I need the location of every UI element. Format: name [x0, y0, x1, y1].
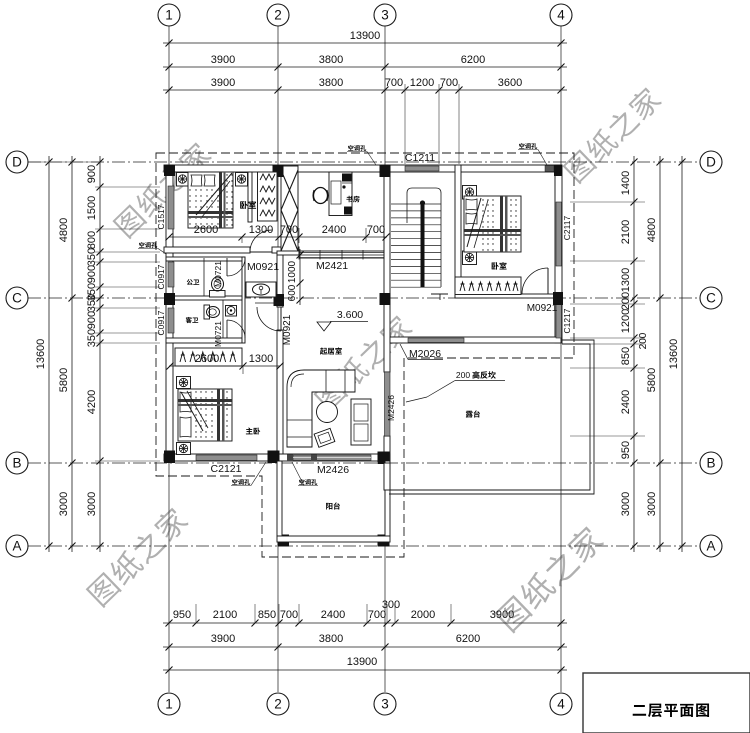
basin bath2	[226, 306, 237, 317]
svg-text:13600: 13600	[668, 339, 680, 370]
balcony east parapet	[385, 461, 390, 536]
svg-text:1300: 1300	[620, 268, 632, 292]
partition in bath 2	[222, 300, 224, 338]
window C1217	[556, 304, 562, 338]
axis bubble C left	[6, 287, 28, 309]
svg-text:350: 350	[86, 248, 98, 266]
svg-text:700: 700	[367, 224, 385, 236]
door M2426 east sill	[385, 372, 391, 436]
svg-text:1200: 1200	[410, 77, 434, 89]
svg-text:M0721: M0721	[213, 321, 223, 347]
exterior wall south of master bedroom / living room (axis B)	[164, 454, 390, 461]
svg-text:600: 600	[287, 284, 298, 301]
column balcony SW	[278, 535, 290, 547]
top extension lines	[404, 84, 406, 164]
bathroom block bottom wall	[166, 338, 242, 343]
stair direction mark	[431, 293, 448, 295]
study desk	[329, 172, 352, 216]
wall bedroom1 south	[164, 247, 250, 253]
left dimension line 13600	[48, 156, 50, 552]
svg-text:3: 3	[381, 697, 389, 712]
title block box	[583, 673, 750, 733]
axis bubble A left	[6, 535, 28, 557]
bottom dimension line subdivisions	[163, 622, 567, 624]
svg-text:M0721: M0721	[213, 261, 223, 287]
svg-text:3600: 3600	[498, 77, 522, 89]
svg-text:6200: 6200	[456, 633, 480, 645]
left dimension line subdivisions	[99, 156, 101, 552]
svg-text:C: C	[12, 291, 22, 306]
window C2121	[196, 455, 257, 461]
master closet	[175, 348, 242, 366]
interior dim line 2600/1300/700/2400/700	[169, 236, 387, 238]
master bed dark bands	[217, 389, 220, 441]
bed 2 nightstand bottom with lamp	[463, 251, 477, 265]
axis bubble A right	[700, 535, 722, 557]
svg-text:850: 850	[620, 347, 632, 365]
partition in bath 1	[203, 258, 205, 296]
svg-text:M2426: M2426	[317, 464, 349, 476]
svg-text:C: C	[706, 291, 716, 306]
bathroom east wall	[242, 257, 245, 343]
svg-text:1: 1	[165, 8, 173, 23]
window C1517	[168, 186, 174, 229]
room label master	[246, 428, 260, 435]
toilet bath2	[204, 305, 210, 319]
window C0917 lower	[168, 308, 174, 333]
window C1211	[405, 166, 439, 171]
svg-text:3900: 3900	[211, 77, 235, 89]
living west wall (axis 2)	[277, 298, 283, 307]
svg-text:200: 200	[620, 292, 632, 310]
roof overhang dashed outline	[156, 153, 574, 557]
svg-text:3000: 3000	[58, 492, 70, 516]
room label study	[346, 196, 359, 203]
staircase center rail	[421, 202, 425, 288]
svg-text:C1211: C1211	[405, 152, 435, 164]
svg-text:2600: 2600	[195, 353, 219, 365]
staircase treads	[391, 203, 441, 205]
master nightstand bottom	[177, 443, 191, 455]
svg-text:2100: 2100	[620, 220, 632, 244]
svg-text:B: B	[706, 456, 715, 471]
column 3/C	[380, 293, 391, 305]
column balcony SE	[378, 535, 390, 547]
axis bubble 2 top	[267, 4, 289, 26]
door M0721 bath2	[226, 320, 228, 338]
toilet bath1	[210, 291, 226, 298]
svg-text:1: 1	[165, 697, 173, 712]
svg-text:5800: 5800	[646, 368, 658, 392]
level mark 3.600	[317, 322, 331, 331]
exterior wall right upper (axis 4)	[555, 165, 562, 343]
svg-text:4: 4	[557, 8, 565, 23]
grid line 4 vertical	[560, 26, 562, 692]
svg-text:3900: 3900	[490, 609, 514, 621]
svg-text:4: 4	[557, 697, 565, 712]
shaft lattice	[281, 170, 298, 210]
door M0721 bath1	[226, 258, 228, 276]
corridor vanity	[246, 282, 276, 297]
svg-text:850: 850	[258, 609, 276, 621]
living east wall lower	[384, 463, 390, 490]
svg-text:M2426: M2426	[386, 395, 396, 421]
watermark 1	[112, 139, 213, 239]
svg-text:6200: 6200	[461, 54, 485, 66]
svg-text:13600: 13600	[35, 339, 47, 370]
axis bubble B right	[700, 452, 722, 474]
wall bedroom2 south (axis C east)	[455, 294, 561, 298]
svg-text:2400: 2400	[620, 390, 632, 414]
svg-text:4200: 4200	[86, 390, 98, 414]
svg-text:A: A	[706, 539, 715, 554]
bottom dimension line 3900/3800/6200	[163, 646, 567, 648]
corridor east wall (axis 2)	[277, 253, 283, 298]
axis bubble 4 bottom	[550, 693, 572, 715]
svg-text:C2121: C2121	[211, 463, 242, 475]
grid line D horizontal	[28, 161, 700, 163]
svg-text:13900: 13900	[350, 30, 381, 42]
bed 2 nightstand top with lamp	[463, 186, 477, 200]
bedroom1 wardrobe	[258, 172, 278, 221]
watermark 4	[86, 505, 191, 608]
balcony west parapet	[277, 461, 282, 536]
left dimension line 4800/5800/3000	[71, 156, 73, 552]
stool rotated	[314, 428, 335, 447]
svg-text:1300: 1300	[249, 353, 273, 365]
axis bubble D right	[700, 151, 722, 173]
svg-text:2600: 2600	[194, 224, 218, 236]
svg-text:700: 700	[280, 224, 298, 236]
axis bubble D left	[6, 151, 28, 173]
master bed	[178, 389, 232, 441]
bed 1 nightstand right with lamp	[236, 173, 248, 187]
bed 1 dark bands	[188, 211, 233, 214]
svg-text:M0921: M0921	[247, 261, 279, 273]
left D extension	[28, 161, 100, 163]
room label bedroom1	[240, 201, 256, 209]
svg-text:B: B	[12, 456, 21, 471]
column 4/C	[553, 292, 563, 305]
AC hole mark top-right wall	[545, 166, 554, 172]
AC hole label top right	[519, 143, 537, 149]
svg-text:950: 950	[620, 441, 632, 459]
grid line C horizontal	[28, 297, 700, 299]
svg-text:2000: 2000	[411, 609, 435, 621]
svg-text:3900: 3900	[211, 54, 235, 66]
svg-text:3900: 3900	[211, 633, 235, 645]
svg-text:3000: 3000	[86, 492, 98, 516]
svg-text:1300: 1300	[249, 224, 273, 236]
svg-text:1000: 1000	[287, 260, 298, 283]
terrace parapet	[389, 340, 594, 494]
svg-text:C0917: C0917	[156, 310, 166, 335]
svg-text:700: 700	[280, 609, 298, 621]
TV cabinet	[351, 399, 371, 445]
column 1/B	[164, 451, 175, 464]
sofa L-shaped	[287, 370, 355, 447]
room label bath1	[187, 279, 199, 285]
AC hole label left wall	[139, 242, 157, 248]
svg-text:C1517: C1517	[156, 204, 166, 229]
svg-text:1200: 1200	[620, 309, 632, 333]
bed 2 dark bands	[500, 196, 503, 252]
column 2/B	[268, 451, 280, 464]
svg-text:900: 900	[86, 165, 98, 183]
axis bubble 3 top	[374, 4, 396, 26]
svg-text:950: 950	[173, 609, 191, 621]
wall study south (M2421 wall)	[299, 251, 384, 258]
bathroom middle wall (axis C)	[169, 296, 242, 300]
interior dim 1000/600 vertical	[299, 249, 301, 305]
svg-text:3000: 3000	[620, 492, 632, 516]
svg-text:3800: 3800	[319, 77, 343, 89]
svg-text:900: 900	[86, 311, 98, 329]
grid line A horizontal	[28, 545, 700, 547]
interior dim closet 2600/1300	[169, 365, 280, 367]
room label terrace	[466, 410, 480, 417]
study chair	[314, 188, 328, 204]
column 1/D	[164, 165, 175, 176]
bedroom2 door M0921	[547, 268, 549, 294]
column 1/C	[164, 293, 175, 305]
room label bedroom2	[492, 262, 507, 270]
door M2026 sill	[408, 338, 464, 343]
AC jamb marks	[287, 455, 293, 462]
master bed fold	[181, 392, 203, 431]
svg-text:3800: 3800	[319, 633, 343, 645]
axis bubble 1 top	[158, 4, 180, 26]
svg-text:200: 200	[638, 332, 649, 349]
svg-text:2400: 2400	[322, 224, 346, 236]
svg-text:300: 300	[382, 599, 400, 611]
svg-text:M0921: M0921	[282, 314, 293, 345]
top dimension line 3900/3800/700/1200/700/3600	[163, 89, 567, 91]
wall stub south of shaft	[277, 251, 299, 255]
svg-text:700: 700	[440, 77, 458, 89]
staircase outline	[407, 188, 441, 287]
svg-text:3800: 3800	[319, 54, 343, 66]
bed 2 fold	[467, 198, 481, 247]
svg-text:M2421: M2421	[316, 260, 348, 272]
svg-text:C0917: C0917	[156, 264, 166, 289]
watermark 2	[562, 84, 663, 184]
svg-text:M0921: M0921	[527, 303, 558, 314]
svg-text:350: 350	[86, 294, 98, 312]
bed 1 nightstand left with lamp	[177, 173, 189, 187]
grid line 3 vertical	[384, 26, 386, 692]
svg-text:2100: 2100	[213, 609, 237, 621]
svg-text:900: 900	[86, 265, 98, 283]
door living M0921	[280, 307, 282, 331]
coffee table round	[317, 402, 338, 423]
bedroom2 closet	[455, 277, 521, 295]
bed 1 fold	[196, 173, 232, 215]
door M2421 sliding sill	[299, 251, 384, 253]
right dimension line 4800/5800/3000	[659, 156, 661, 552]
column 2/D	[273, 165, 284, 177]
svg-text:3000: 3000	[646, 492, 658, 516]
bed 1	[188, 172, 233, 228]
svg-text:5800: 5800	[58, 368, 70, 392]
svg-text:2400: 2400	[321, 609, 345, 621]
watermark 5	[494, 523, 606, 633]
exterior wall left (axis 1)	[166, 165, 173, 461]
bedroom1 closet partition wall	[248, 172, 252, 222]
bottom dimension line total 13900	[163, 669, 567, 671]
svg-text:D: D	[12, 155, 22, 170]
axis bubble 4 top	[550, 4, 572, 26]
door bedroom1 M0921 arc	[250, 230, 272, 252]
svg-text:700: 700	[385, 77, 403, 89]
bed 2	[464, 196, 521, 252]
svg-text:350: 350	[86, 329, 98, 347]
right dimension line 13600	[681, 156, 683, 552]
watermark 3	[313, 312, 414, 412]
svg-text:2: 2	[274, 8, 282, 23]
right dimension line subdivisions	[633, 156, 635, 552]
room label living	[320, 347, 342, 354]
axis bubble 2 bottom	[267, 693, 289, 715]
top dimension line 3900/3800/6200	[163, 66, 567, 68]
living east wall (axis 3)	[384, 298, 390, 372]
column 3/D	[380, 165, 391, 177]
bathroom block top wall	[166, 257, 245, 261]
svg-text:C1217: C1217	[562, 308, 572, 333]
axis bubble 1 bottom	[158, 693, 180, 715]
grid line 1 vertical	[168, 26, 170, 692]
AC hole label balcony left	[232, 479, 250, 485]
room label balcony	[326, 502, 340, 509]
exterior wall top (axis D)	[164, 165, 561, 172]
stair east wall	[455, 165, 461, 298]
axis bubble 3 bottom	[374, 693, 396, 715]
room label bath2	[186, 317, 199, 323]
AC hole label balcony right	[299, 479, 317, 485]
axis bubble B left	[6, 452, 28, 474]
svg-text:2: 2	[274, 697, 282, 712]
stair west wall (axis 3)	[384, 165, 390, 298]
grid line 2 vertical	[277, 26, 279, 692]
svg-text:M2026: M2026	[409, 348, 441, 360]
svg-text:D: D	[706, 155, 716, 170]
svg-text:800: 800	[86, 231, 98, 249]
door M2426 south sill	[293, 455, 371, 461]
svg-text:1400: 1400	[620, 171, 632, 195]
column 4/D	[554, 165, 562, 176]
svg-text:4800: 4800	[58, 218, 70, 242]
AC hole label top middle	[348, 145, 366, 151]
grid line B horizontal	[28, 462, 700, 464]
top dimension line total 13900	[163, 42, 567, 44]
column 2/C	[274, 294, 285, 306]
column 3/B	[378, 452, 390, 465]
title text	[633, 704, 709, 718]
svg-text:200: 200	[456, 370, 470, 380]
svg-text:3: 3	[381, 8, 389, 23]
svg-text:C2117: C2117	[562, 216, 572, 241]
svg-text:A: A	[12, 539, 21, 554]
window C2117	[556, 202, 562, 266]
shaft between bedroom1 and study	[281, 166, 298, 251]
balcony south parapet	[277, 536, 390, 542]
window C0917 upper	[168, 262, 174, 287]
svg-text:13900: 13900	[347, 656, 378, 668]
axis bubble C right	[700, 287, 722, 309]
svg-text:4800: 4800	[646, 218, 658, 242]
svg-text:1500: 1500	[86, 196, 98, 220]
terrace north wall (M2026 wall)	[390, 337, 561, 343]
master nightstand top	[177, 377, 191, 389]
svg-text:3.600: 3.600	[337, 309, 363, 321]
